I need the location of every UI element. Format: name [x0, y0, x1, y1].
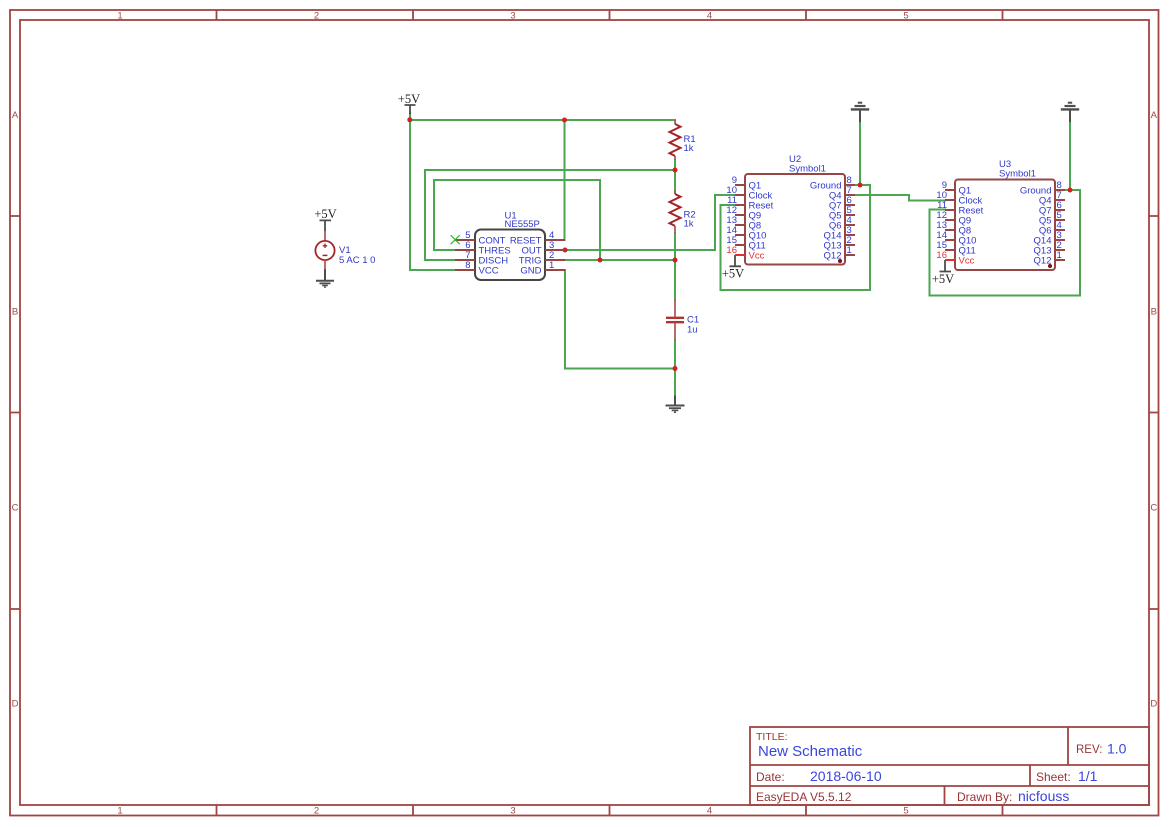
svg-text:Vcc: Vcc [749, 250, 765, 261]
svg-text:16: 16 [936, 250, 947, 261]
svg-text:5 AC 1 0: 5 AC 1 0 [339, 255, 375, 266]
svg-text:Drawn By:: Drawn By: [957, 790, 1012, 804]
svg-text:+5V: +5V [722, 267, 744, 281]
svg-text:GND: GND [520, 265, 541, 276]
svg-text:4: 4 [707, 10, 712, 21]
svg-text:D: D [12, 698, 19, 709]
svg-text:VCC: VCC [479, 265, 499, 276]
svg-text:C: C [1150, 502, 1157, 513]
svg-text:Symbol1: Symbol1 [789, 163, 826, 174]
svg-text:+5V: +5V [932, 272, 954, 286]
svg-text:5: 5 [903, 806, 908, 817]
svg-text:D: D [1150, 698, 1157, 709]
svg-text:1k: 1k [684, 143, 694, 154]
svg-text:1.0: 1.0 [1107, 741, 1127, 757]
svg-text:1: 1 [117, 10, 122, 21]
svg-text:NE555P: NE555P [505, 219, 540, 230]
svg-text:1: 1 [117, 806, 122, 817]
svg-text:1u: 1u [687, 324, 698, 335]
svg-text:4: 4 [707, 806, 712, 817]
svg-text:REV:: REV: [1076, 744, 1102, 756]
svg-text:+5V: +5V [398, 92, 420, 106]
svg-text:Vcc: Vcc [959, 255, 975, 266]
svg-text:1k: 1k [684, 219, 694, 230]
svg-text:Sheet:: Sheet: [1036, 770, 1071, 784]
svg-text:Symbol1: Symbol1 [999, 168, 1036, 179]
svg-text:3: 3 [510, 806, 515, 817]
svg-text:EasyEDA V5.5.12: EasyEDA V5.5.12 [756, 790, 852, 804]
svg-text:1: 1 [847, 245, 852, 256]
svg-text:5: 5 [903, 10, 908, 21]
svg-text:B: B [12, 306, 18, 317]
svg-text:B: B [1151, 306, 1157, 317]
svg-text:+5V: +5V [314, 207, 336, 221]
svg-text:1: 1 [1057, 250, 1062, 261]
svg-text:16: 16 [726, 245, 737, 256]
svg-text:C: C [12, 502, 19, 513]
svg-text:2: 2 [314, 806, 319, 817]
svg-text:New Schematic: New Schematic [758, 743, 863, 760]
svg-text:A: A [1151, 110, 1158, 121]
svg-text:nicfouss: nicfouss [1018, 788, 1069, 804]
svg-text:Date:: Date: [756, 770, 785, 784]
svg-text:2018-06-10: 2018-06-10 [810, 768, 882, 784]
svg-text:2: 2 [314, 10, 319, 21]
svg-text:8: 8 [465, 260, 470, 271]
svg-text:A: A [12, 110, 19, 121]
svg-text:3: 3 [510, 10, 515, 21]
svg-text:1/1: 1/1 [1078, 768, 1098, 784]
svg-text:TITLE:: TITLE: [756, 731, 788, 743]
svg-text:1: 1 [549, 260, 554, 271]
